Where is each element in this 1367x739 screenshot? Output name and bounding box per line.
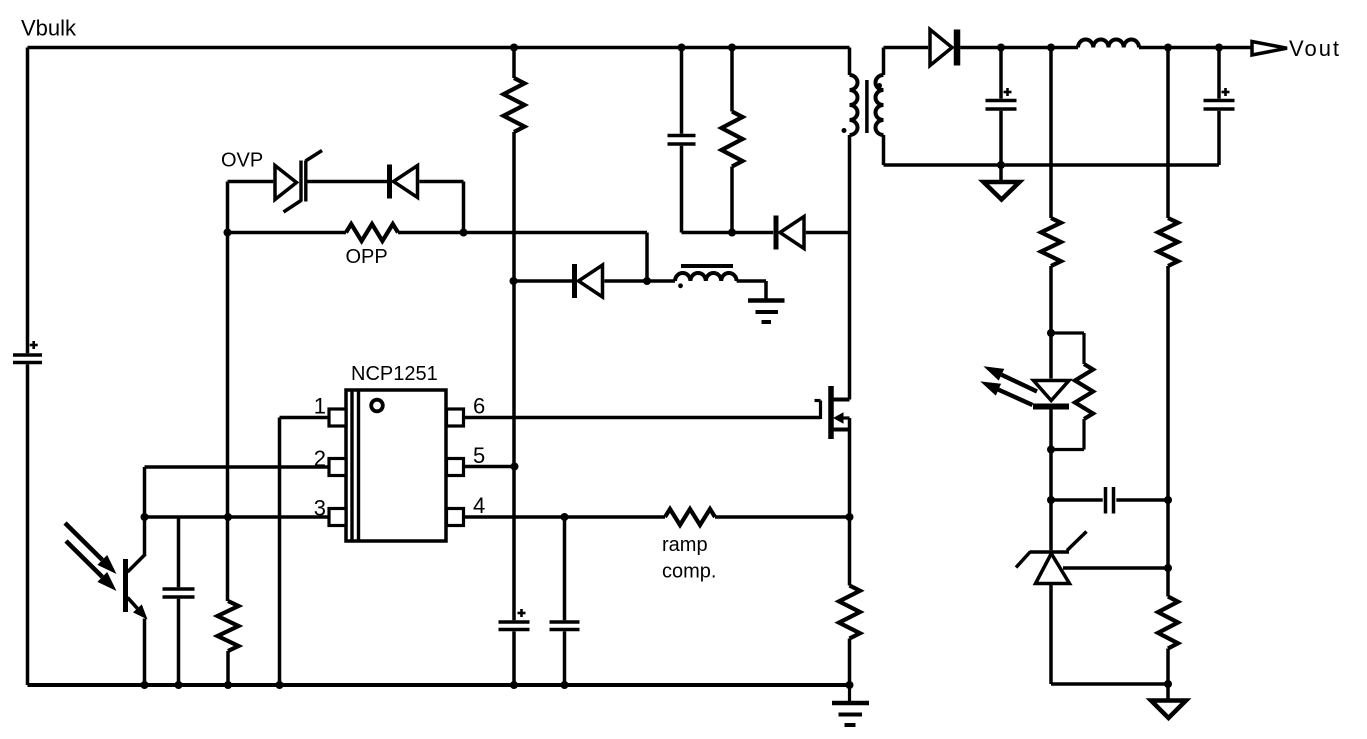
wire secondary top vert <box>882 48 886 76</box>
capacitor C6 output <box>986 88 1017 109</box>
wire startup lower <box>512 631 516 685</box>
node CS-sense <box>846 513 854 521</box>
node divider-C8 <box>1164 496 1172 504</box>
resistor R4 OPP <box>346 224 398 241</box>
wire R3 to ground <box>226 651 230 685</box>
node CS-C5 <box>561 513 569 521</box>
wire bottom ground rail <box>28 683 850 687</box>
node clamp R2-D2 <box>728 229 736 237</box>
resistor R1 startup <box>504 78 525 132</box>
wire OVP horiz b <box>307 180 387 184</box>
opto light arrow b <box>66 541 117 591</box>
svg-text:4: 4 <box>473 493 485 518</box>
capacitor C1 bulk <box>13 341 42 363</box>
wire clamp-res upper <box>730 48 734 112</box>
node Vout-R9 <box>1164 44 1172 52</box>
node LED bottom <box>1047 446 1055 454</box>
capacitor C7 output <box>1204 88 1235 109</box>
wire clamp-cap lower <box>680 146 684 233</box>
capacitor C4 Vcc <box>499 609 530 630</box>
resistor R10 divider lower <box>1158 597 1178 649</box>
node secondary gnd C6 <box>997 161 1005 169</box>
wire primary top <box>848 48 852 76</box>
wire C5 lower <box>563 631 567 685</box>
svg-text:comp.: comp. <box>662 561 716 583</box>
node Vbulk-R1 <box>510 44 518 52</box>
diode D3 aux <box>575 264 603 298</box>
node ramp comp label <box>662 534 716 583</box>
pin 1 square <box>329 409 346 426</box>
pin 2 square <box>329 459 346 476</box>
wire OVP right vertical <box>462 182 466 233</box>
capacitor C3 <box>163 589 195 597</box>
svg-text:Vbulk: Vbulk <box>21 16 77 41</box>
node OVP-OPP <box>460 229 468 237</box>
wire pin5 <box>464 465 515 469</box>
diode D2 clamp <box>776 216 804 250</box>
wire divider mid <box>1166 266 1170 597</box>
node aux-L1 <box>643 277 651 285</box>
wire OPP rail right <box>398 231 647 235</box>
wire C6 lower <box>999 111 1003 165</box>
op-amp U1 NCP1251 label <box>351 363 438 385</box>
pin 3 label <box>314 496 326 521</box>
node OVP label <box>221 150 263 172</box>
node TL431 cathode-C8 <box>1047 496 1055 504</box>
wire startup upper <box>512 48 516 79</box>
ground triangle divider <box>1151 701 1186 719</box>
node Vbulk-R2 <box>728 44 736 52</box>
node Vout-R7 <box>1047 44 1055 52</box>
wire aux mid <box>604 279 675 283</box>
wire C5 upper <box>563 517 567 620</box>
transformer T1 secondary <box>876 75 884 135</box>
wire pin3 <box>145 515 330 519</box>
node Vout-C7 <box>1215 44 1223 52</box>
wire pin4 left <box>464 515 666 519</box>
svg-text:1: 1 <box>314 394 326 419</box>
node L1 phase dot <box>678 283 683 288</box>
pin 4 label <box>473 493 485 518</box>
wire aux right <box>737 281 766 300</box>
capacitor C8 comp <box>1106 487 1114 514</box>
wire primary drain <box>848 135 852 400</box>
op-amp U1 NCP1251 body <box>346 390 446 541</box>
pin 6 label <box>473 394 485 419</box>
node T1 primary phase dot <box>842 128 847 133</box>
resistor R9 divider upper <box>1158 218 1178 266</box>
ground aux bars <box>748 301 785 323</box>
wire secondary rail a <box>884 46 929 50</box>
node Vbulk label <box>21 16 77 41</box>
wire TL431 ref <box>1063 566 1168 570</box>
wire secondary rail c <box>1139 46 1252 50</box>
inductor L1 aux <box>675 266 737 281</box>
node FB-collector <box>141 513 149 521</box>
node gnd C3 <box>175 681 183 689</box>
transistor Q2 opto <box>126 554 148 620</box>
transistor Q1 MOSFET <box>815 386 850 439</box>
node gnd pin1 <box>276 681 284 689</box>
capacitor C5 <box>550 622 580 630</box>
wire OVP horiz a <box>228 180 274 184</box>
capacitor C2 clamp <box>668 136 696 145</box>
node gnd R3 <box>224 681 232 689</box>
node Vcc pin5 <box>511 463 519 471</box>
zener U2 TL431 <box>1016 532 1087 584</box>
node OPP label <box>346 246 388 268</box>
wire startup mid <box>512 132 516 620</box>
wire LED branch upper <box>1049 48 1053 219</box>
node gnd C4 <box>510 681 518 689</box>
svg-text:6: 6 <box>473 394 485 419</box>
diode D4 output <box>930 30 957 66</box>
wire clamp-res lower <box>730 167 734 233</box>
wire C7 lower <box>1217 111 1221 165</box>
pin 5 square <box>447 459 464 476</box>
wire LED branch mid <box>1049 266 1053 379</box>
wire collector vertical <box>143 517 147 555</box>
resistor R7 LED series <box>1041 218 1061 266</box>
wire OPP rail left <box>228 231 347 235</box>
wire aux left <box>514 279 573 283</box>
inductor L2 output <box>1078 40 1139 48</box>
wire OVP horiz c <box>419 180 463 184</box>
wire source <box>848 418 852 586</box>
transformer T1 primary <box>850 75 858 135</box>
wire C6 ground stem <box>999 165 1003 181</box>
wire pin2 vertical <box>143 467 147 517</box>
node divider gnd <box>1164 680 1172 688</box>
wire top rail Vbulk <box>28 46 850 50</box>
node LED top <box>1047 329 1055 337</box>
wire secondary gnd bottom <box>1051 682 1168 686</box>
pin 2 label <box>314 446 326 471</box>
wire secondary rail b <box>960 46 1078 50</box>
wire LED to TL431 <box>1049 410 1053 551</box>
node gnd C5 <box>561 681 569 689</box>
wire clamp horizontal left <box>682 231 774 235</box>
node gnd emitter <box>141 681 149 689</box>
node T1 secondary phase dot <box>877 83 882 88</box>
wire left rail lower <box>26 364 30 685</box>
ground triangle secondary <box>984 182 1020 200</box>
transformer T1 core <box>865 80 869 133</box>
svg-text:NCP1251: NCP1251 <box>351 363 438 385</box>
wire emitter vertical <box>143 619 147 686</box>
ground main bars <box>832 685 869 725</box>
wire left rail upper <box>26 48 30 354</box>
node Vbulk-C2 <box>678 44 686 52</box>
resistor R3 CS divider <box>218 601 239 651</box>
node Vout label <box>1289 36 1341 61</box>
wire clamp-cap upper <box>680 48 684 134</box>
wire clamp horizontal right <box>806 231 850 235</box>
wire gnd2 stem <box>1166 684 1170 699</box>
wire comp cap left <box>1051 498 1103 502</box>
wire OVP left vertical <box>226 182 230 602</box>
wire comp cap right <box>1116 498 1168 502</box>
svg-text:5: 5 <box>473 443 485 468</box>
node CS-R3 <box>224 513 232 521</box>
wire pin1 vertical <box>278 418 282 686</box>
wire pin4 right <box>715 515 850 519</box>
wire divider top <box>1166 48 1170 219</box>
svg-text:Vout: Vout <box>1289 36 1341 61</box>
svg-text:ramp: ramp <box>662 534 708 556</box>
pin 4 square <box>447 509 464 526</box>
resistor R2 clamp <box>722 112 743 167</box>
node Vcc-D3 <box>510 277 518 285</box>
wire pin2 <box>145 465 330 469</box>
wire divider bottom <box>1166 649 1170 685</box>
wire secondary bottom vert <box>882 135 886 165</box>
wire gate <box>464 416 821 420</box>
node gnd sense <box>846 681 854 689</box>
pin 1 label <box>314 394 326 419</box>
wire sense to ground <box>848 639 852 686</box>
wire secondary ground rail <box>884 163 1220 167</box>
svg-text:OVP: OVP <box>221 150 263 172</box>
zener OVP TL431-style <box>275 151 322 213</box>
wire pin1 <box>280 416 330 420</box>
pin 6 square <box>447 409 464 426</box>
wire C7 upper <box>1217 48 1221 99</box>
resistor R5 sense <box>839 586 860 639</box>
resistor R8 LED parallel <box>1051 333 1093 450</box>
LED emission arrow b <box>980 381 1032 405</box>
wire C6 upper <box>999 48 1003 99</box>
wire C3 lower <box>177 599 181 685</box>
LED emission arrow a <box>983 366 1037 391</box>
diode D1 OVP series <box>390 165 418 199</box>
pin 5 label <box>473 443 485 468</box>
diode LED opto <box>1033 381 1069 407</box>
opto light arrow a <box>65 523 117 574</box>
node Vout arrow <box>1252 42 1287 56</box>
node OPP-left <box>224 229 232 237</box>
wire C3 upper <box>177 517 181 587</box>
node Vout-C6 <box>997 44 1005 52</box>
node divider ref <box>1164 564 1172 572</box>
resistor R6 ramp comp <box>665 509 715 525</box>
wire OPP down <box>645 233 649 282</box>
wire TL431 anode <box>1049 584 1053 685</box>
svg-text:OPP: OPP <box>346 246 388 268</box>
pin 3 square <box>329 509 346 526</box>
